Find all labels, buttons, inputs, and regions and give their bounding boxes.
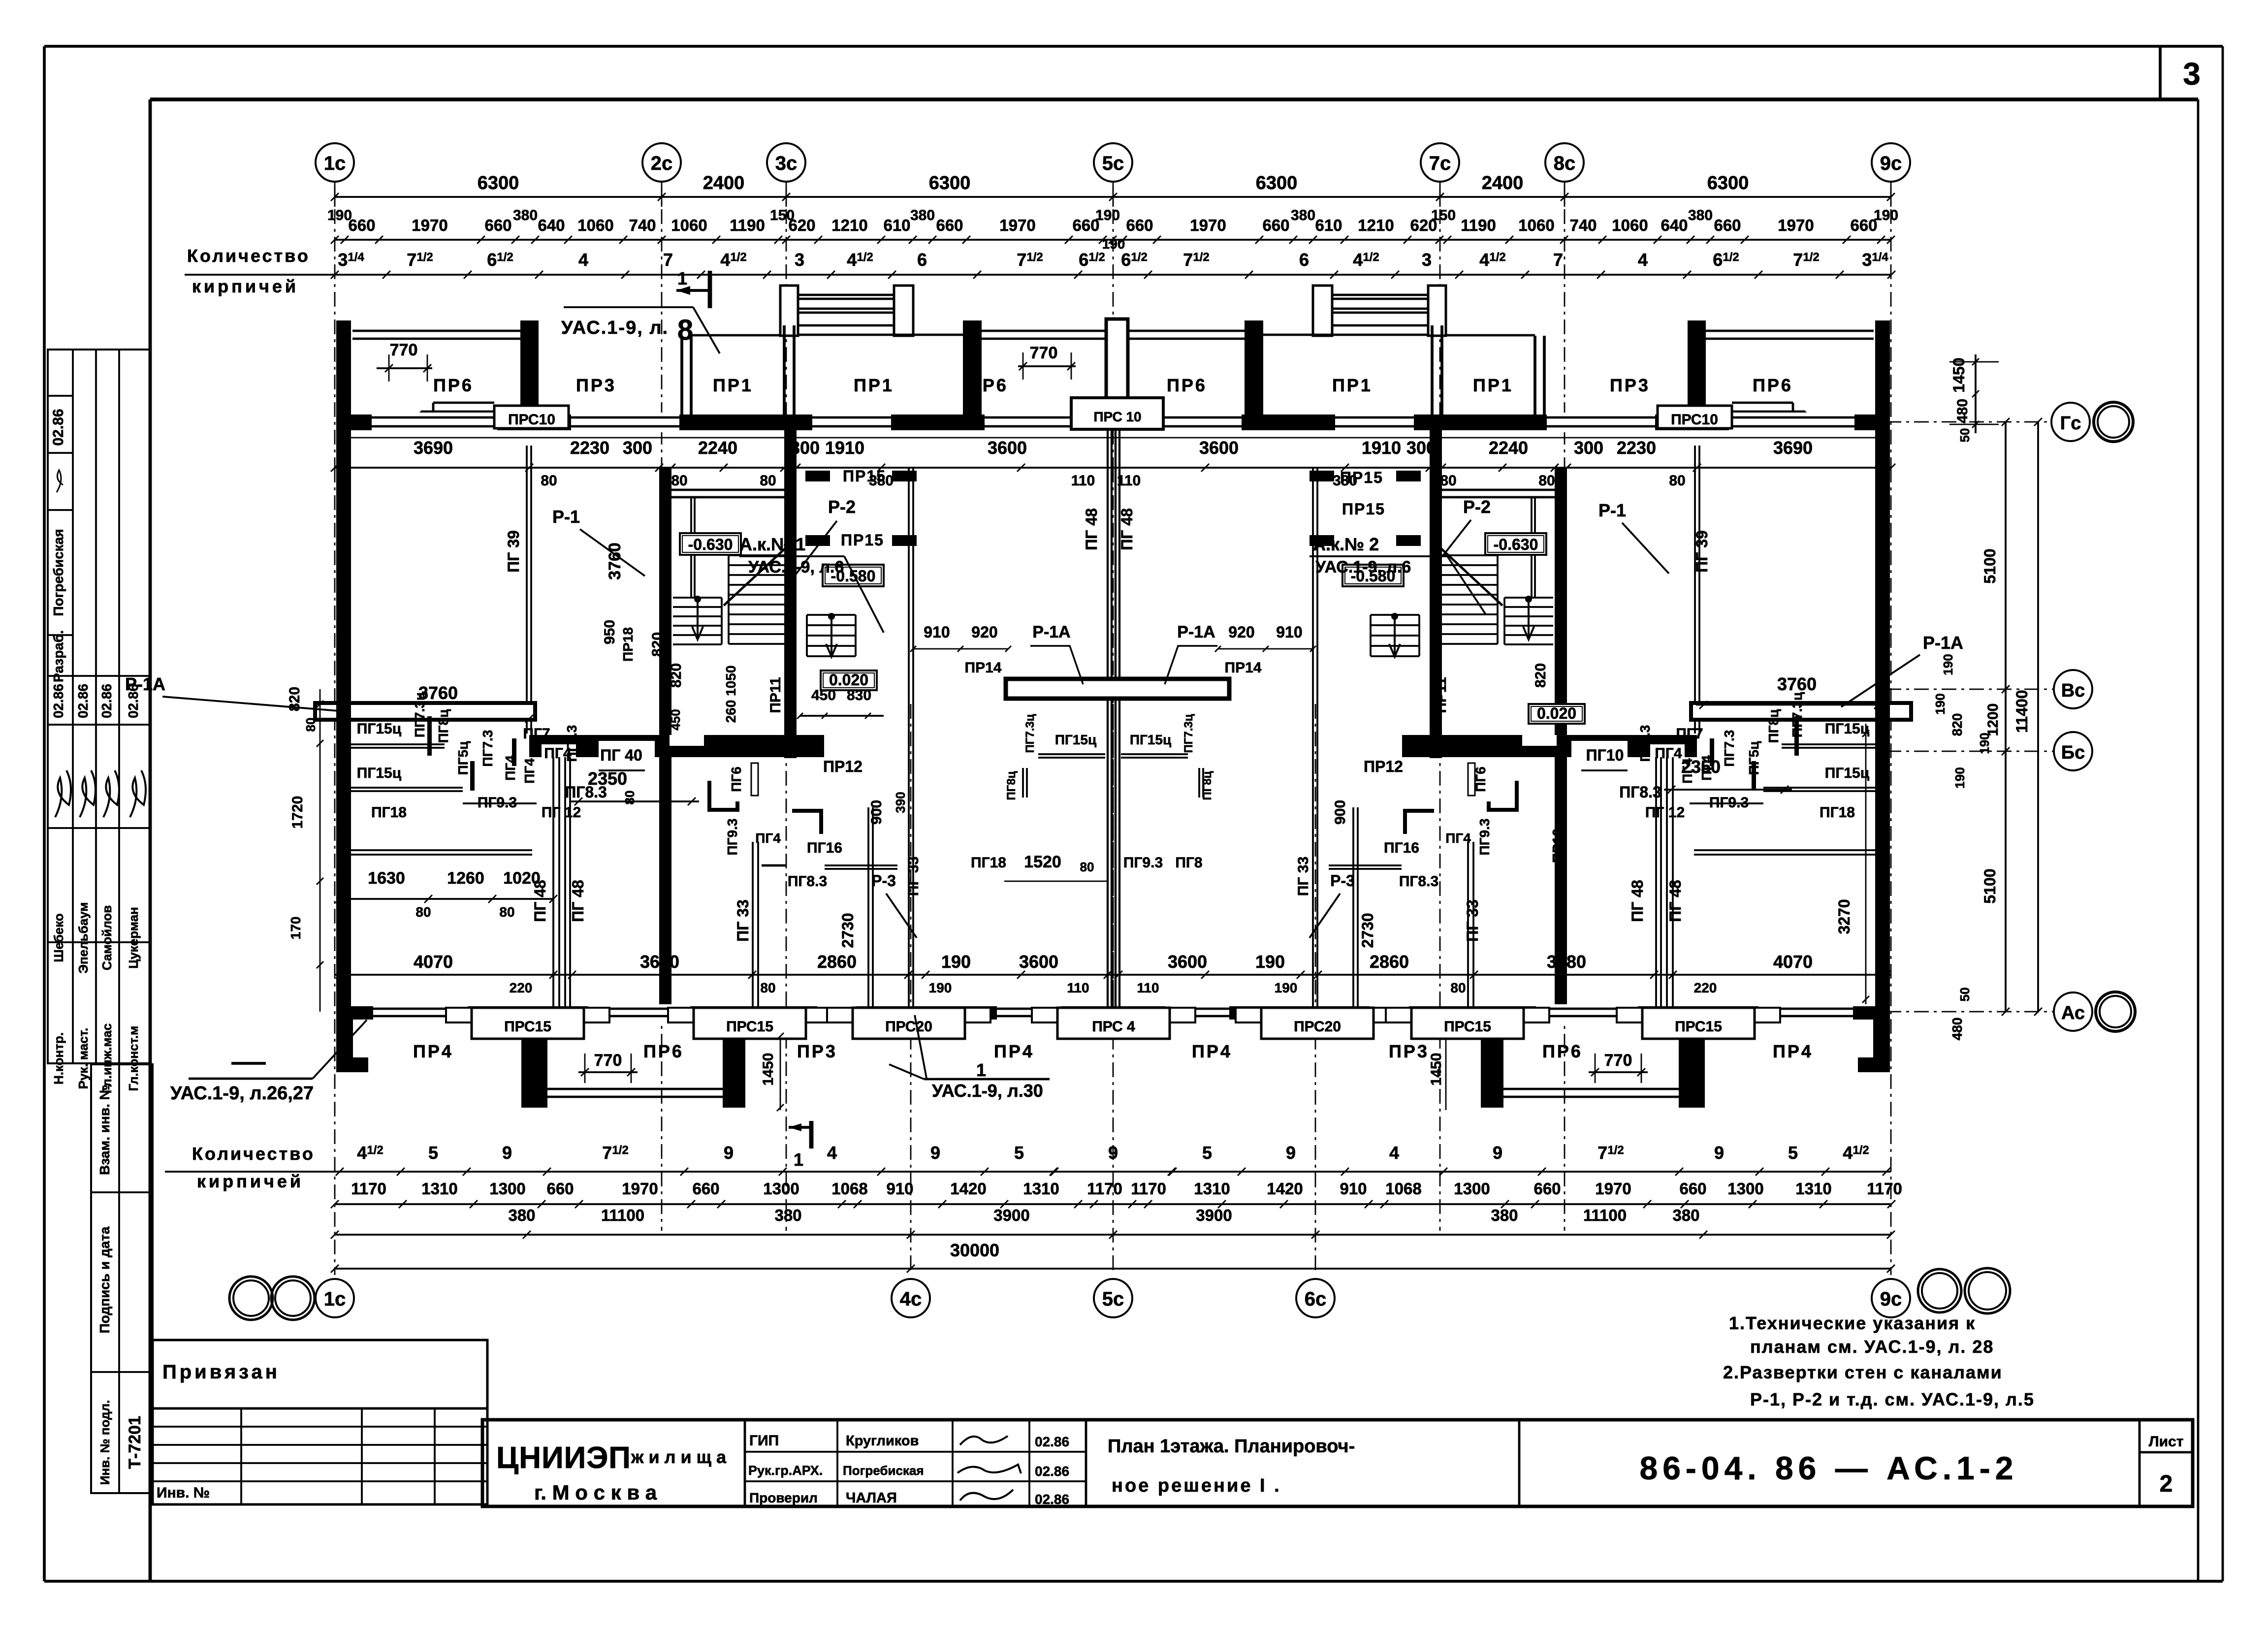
svg-text:11100: 11100 [1583, 1206, 1627, 1224]
svg-text:1060: 1060 [1518, 216, 1554, 234]
svg-text:ПГ8ц: ПГ8ц [1201, 771, 1214, 800]
dim 770 top left [377, 341, 432, 382]
right vertical dimension 11400 [2013, 418, 2042, 1016]
svg-text:УАС.1-9, л.26,27: УАС.1-9, л.26,27 [170, 1083, 314, 1104]
svg-text:-0.630: -0.630 [688, 536, 733, 553]
loggia labels bottom [413, 1041, 1813, 1061]
svg-text:ж и л и щ а: ж и л и щ а [631, 1447, 727, 1467]
right end wall [1875, 320, 1890, 1019]
svg-text:ПГ 39: ПГ 39 [1693, 530, 1711, 573]
svg-text:80: 80 [499, 904, 514, 920]
svg-text:ПРС15: ПРС15 [1675, 1019, 1722, 1035]
svg-text:Р-3: Р-3 [871, 872, 896, 890]
svg-text:ПГ 48: ПГ 48 [1666, 880, 1684, 922]
svg-text:1420: 1420 [950, 1180, 986, 1198]
stair flight arrows right [1389, 596, 1534, 657]
apartment entry labels right [1310, 534, 1486, 614]
wall labels left module [505, 530, 884, 804]
svg-text:Инв. № подл.: Инв. № подл. [97, 1400, 112, 1485]
svg-text:660: 660 [484, 216, 511, 234]
svg-text:190: 190 [1095, 207, 1120, 223]
svg-text:6300: 6300 [929, 173, 971, 193]
svg-text:Привязан: Привязан [162, 1361, 280, 1383]
svg-text:Ас: Ас [2061, 1003, 2085, 1023]
lintel labels PR15 left bay [841, 467, 886, 549]
svg-text:1300: 1300 [489, 1180, 525, 1198]
bottom brick count row [165, 1143, 1891, 1176]
svg-text:3680: 3680 [1547, 952, 1586, 972]
svg-text:Рук. маст.: Рук. маст. [76, 1028, 91, 1089]
dim 770 bottom right porch [1428, 1051, 1648, 1085]
svg-text:1190: 1190 [1461, 216, 1496, 234]
svg-text:3: 3 [2183, 56, 2201, 92]
lintel box ПРС15 bottom [1386, 1008, 1549, 1039]
svg-text:1970: 1970 [1190, 216, 1226, 234]
svg-text:ПР6: ПР6 [1167, 375, 1207, 395]
svg-text:ПГ6: ПГ6 [729, 766, 744, 792]
svg-text:190: 190 [1941, 654, 1955, 675]
svg-text:830: 830 [847, 687, 871, 703]
svg-text:ПГ 12: ПГ 12 [1645, 804, 1685, 821]
svg-text:110: 110 [1067, 980, 1089, 995]
svg-text:5: 5 [1202, 1143, 1212, 1163]
svg-text:770: 770 [390, 341, 418, 359]
svg-text:4: 4 [827, 1143, 837, 1163]
svg-text:Н.контр.: Н.контр. [51, 1032, 66, 1085]
svg-text:ПГ18: ПГ18 [971, 855, 1006, 871]
svg-text:300: 300 [623, 438, 652, 458]
svg-text:Количество: Количество [192, 1144, 315, 1164]
svg-text:190: 190 [929, 980, 952, 995]
central wall 5c [1006, 335, 1229, 1006]
partition tags near 5c wall [1005, 714, 1214, 800]
axis circle 5c top [1094, 143, 1132, 182]
svg-text:ПР3: ПР3 [1389, 1041, 1429, 1061]
svg-text:ПГ4: ПГ4 [755, 830, 781, 846]
svg-text:30000: 30000 [950, 1240, 999, 1260]
svg-text:1с: 1с [324, 1288, 346, 1310]
svg-text:1300: 1300 [1727, 1180, 1763, 1198]
svg-text:5100: 5100 [1981, 868, 1999, 903]
svg-text:ПР10: ПР10 [1550, 829, 1565, 863]
svg-text:1068: 1068 [1385, 1180, 1421, 1198]
svg-text:3: 3 [1422, 250, 1432, 270]
svg-text:Эпельбаум: Эпельбаум [76, 902, 91, 973]
svg-text:Рук.гр.АРХ.: Рук.гр.АРХ. [748, 1463, 823, 1478]
svg-text:220: 220 [1694, 980, 1717, 995]
svg-text:1450: 1450 [760, 1053, 776, 1086]
central wall labels PG48 [531, 508, 1684, 942]
svg-text:190: 190 [1933, 693, 1948, 714]
svg-text:ПР15: ПР15 [841, 531, 884, 549]
svg-text:900: 900 [868, 800, 885, 825]
section reference UAS.1-9 l.8 [561, 307, 720, 353]
svg-text:Кругликов: Кругликов [846, 1433, 919, 1449]
svg-text:1170: 1170 [1867, 1180, 1902, 1198]
svg-text:1450: 1450 [1950, 357, 1968, 392]
svg-text:1970: 1970 [1778, 216, 1814, 234]
axis circle 4c bottom [892, 1279, 930, 1317]
svg-text:ПГ4: ПГ4 [1655, 745, 1682, 762]
svg-text:ПР14: ПР14 [1225, 660, 1262, 676]
svg-text:ПГ15ц: ПГ15ц [1825, 721, 1870, 737]
svg-text:5: 5 [428, 1143, 438, 1163]
svg-text:ЧАЛАЯ: ЧАЛАЯ [846, 1490, 897, 1506]
svg-text:1060: 1060 [1612, 216, 1648, 234]
mid apartment labels Р-1А [125, 623, 1963, 711]
svg-text:-0.630: -0.630 [1494, 536, 1538, 553]
svg-text:640: 640 [1661, 216, 1688, 234]
stair axis labels right module [1442, 497, 1669, 574]
svg-text:02.86: 02.86 [1035, 1464, 1069, 1479]
svg-text:900: 900 [1332, 800, 1348, 825]
svg-text:02.86: 02.86 [50, 409, 66, 446]
svg-text:ПГ 48: ПГ 48 [1629, 880, 1646, 922]
svg-text:3760: 3760 [606, 543, 624, 580]
svg-text:ПР1: ПР1 [713, 375, 753, 395]
room dim 2350 left [571, 768, 699, 805]
svg-text:820: 820 [1533, 663, 1549, 688]
svg-text:6300: 6300 [478, 173, 519, 193]
svg-text:1: 1 [976, 1060, 986, 1080]
svg-text:80: 80 [1440, 473, 1456, 489]
svg-text:ПР11: ПР11 [1433, 677, 1449, 713]
lintel box PRS10 center with stem [1071, 319, 1163, 429]
svg-text:2730: 2730 [1359, 913, 1376, 948]
svg-text:ПГ18: ПГ18 [1820, 804, 1855, 821]
svg-text:ПГ4: ПГ4 [1680, 758, 1695, 784]
svg-text:ПГ7.3ц: ПГ7.3ц [412, 692, 427, 737]
svg-text:ПГ6: ПГ6 [1473, 766, 1488, 792]
svg-text:Гл.конст.м: Гл.конст.м [126, 1026, 141, 1091]
svg-text:УАС.1-9, л.6: УАС.1-9, л.6 [1315, 558, 1411, 576]
apartment entry labels left [739, 534, 884, 633]
svg-text:1020: 1020 [503, 869, 541, 888]
svg-text:220: 220 [510, 980, 533, 995]
svg-text:02.86: 02.86 [51, 684, 66, 718]
top dimension row spans 6300-2400-6300 [331, 173, 1895, 207]
svg-text:ПРС20: ПРС20 [1294, 1019, 1341, 1035]
dim 1520 right of center [971, 853, 1203, 881]
stair axis labels left module [552, 497, 856, 578]
section cut flag 1 bottom [789, 1121, 811, 1170]
svg-text:ПРС 10: ПРС 10 [1093, 409, 1141, 424]
svg-text:300: 300 [790, 438, 820, 458]
svg-text:4: 4 [1389, 1143, 1399, 1163]
svg-text:80: 80 [1669, 473, 1685, 489]
dims near stair bottom left [910, 623, 1316, 676]
svg-text:Подпись и дата: Подпись и дата [97, 1226, 112, 1333]
partition labels lower right cluster [1645, 692, 1876, 821]
svg-text:7: 7 [663, 250, 673, 270]
svg-text:ПГ7.3ц: ПГ7.3ц [1023, 714, 1037, 753]
svg-text:Инв. №: Инв. № [157, 1485, 210, 1501]
svg-text:80: 80 [415, 904, 431, 920]
svg-text:9с: 9с [1880, 1288, 1902, 1310]
svg-text:9: 9 [1714, 1143, 1724, 1163]
axis circle Vc right [1886, 670, 2092, 708]
svg-text:ПГ 33: ПГ 33 [905, 857, 922, 896]
lintel box PRS10 right [1658, 406, 1732, 428]
left margin room dims [287, 687, 323, 1012]
bottom left table [153, 1408, 487, 1504]
svg-text:ПР4: ПР4 [994, 1041, 1034, 1061]
svg-text:ПГ8ц: ПГ8ц [436, 709, 451, 743]
svg-text:ПРС15: ПРС15 [726, 1019, 773, 1035]
svg-text:380: 380 [1688, 207, 1713, 223]
revision double circles bottom left [229, 1277, 315, 1320]
svg-text:ПРС15: ПРС15 [504, 1019, 551, 1035]
svg-text:Т-7201: Т-7201 [126, 1416, 144, 1469]
svg-text:ПР4: ПР4 [1192, 1041, 1232, 1061]
svg-text:6300: 6300 [1707, 173, 1749, 193]
svg-text:ПР1: ПР1 [1473, 375, 1513, 395]
svg-text:80: 80 [622, 791, 637, 805]
svg-text:0.020: 0.020 [1537, 704, 1576, 722]
svg-text:3: 3 [795, 250, 804, 270]
svg-text:Самойлов: Самойлов [99, 905, 114, 970]
left margin signature table [48, 350, 150, 1093]
lintel box ПРС20 bottom [827, 1008, 990, 1039]
svg-text:ПР6: ПР6 [433, 375, 474, 395]
svg-text:1с: 1с [324, 153, 346, 174]
svg-text:Р-2: Р-2 [828, 497, 856, 517]
svg-text:9: 9 [930, 1143, 940, 1163]
axis circle Ac right [1886, 992, 2135, 1031]
svg-text:Погребиская: Погребиская [51, 529, 66, 616]
svg-text:ПР11: ПР11 [767, 677, 784, 713]
bottom dimension row 30000 [331, 1240, 1895, 1273]
svg-text:640: 640 [538, 216, 565, 234]
svg-text:Вс: Вс [2061, 680, 2085, 701]
svg-text:260 1050: 260 1050 [723, 666, 738, 723]
svg-text:920: 920 [1228, 623, 1254, 641]
svg-text:ПГ 39: ПГ 39 [505, 530, 522, 573]
svg-text:910: 910 [924, 623, 950, 641]
svg-text:Проверил: Проверил [749, 1490, 818, 1505]
svg-text:ПР3: ПР3 [1610, 375, 1650, 395]
svg-text:2730: 2730 [839, 913, 857, 948]
svg-text:ПГ9.3: ПГ9.3 [1123, 855, 1163, 871]
svg-text:3690: 3690 [414, 438, 453, 458]
svg-text:660: 660 [1126, 216, 1153, 234]
axis circle 1c top [316, 143, 354, 182]
lintel box ПРС15 bottom [1617, 1008, 1780, 1039]
svg-text:ЦНИИЭП: ЦНИИЭП [496, 1441, 631, 1475]
svg-text:ПГ 33: ПГ 33 [1464, 899, 1481, 942]
svg-text:А.к.№ 2: А.к.№ 2 [1313, 534, 1379, 554]
room dim 3270 right [1835, 724, 1869, 1004]
svg-text:ПГ16: ПГ16 [1384, 840, 1419, 856]
svg-text:ПГ7: ПГ7 [523, 726, 550, 742]
svg-text:9: 9 [1493, 1143, 1502, 1163]
svg-text:2860: 2860 [1370, 952, 1409, 972]
svg-text:ПР1: ПР1 [1332, 375, 1373, 395]
axis circle 9c top [1872, 143, 1910, 182]
svg-text:450: 450 [811, 687, 836, 703]
svg-text:1630: 1630 [368, 869, 405, 888]
svg-text:1200: 1200 [1985, 703, 2001, 736]
svg-text:ПГ 33: ПГ 33 [734, 899, 752, 942]
svg-text:9: 9 [724, 1143, 734, 1163]
svg-text:ПГ8ц: ПГ8ц [1005, 771, 1018, 800]
right vertical dimension 1450 480 50 [1949, 354, 1999, 442]
svg-text:6: 6 [1299, 250, 1309, 270]
svg-text:Гл.инж.мас: Гл.инж.мас [99, 1023, 114, 1093]
svg-text:80: 80 [1080, 860, 1094, 874]
svg-text:ПР12: ПР12 [823, 758, 862, 775]
svg-text:660: 660 [1533, 1180, 1561, 1198]
stair flight arrows left [692, 596, 837, 657]
svg-text:ПГ7.3: ПГ7.3 [1722, 730, 1737, 767]
revision double circles bottom right [1918, 1268, 2010, 1313]
svg-text:190: 190 [1874, 207, 1898, 223]
svg-text:80: 80 [1538, 473, 1555, 489]
svg-text:6с: 6с [1305, 1288, 1327, 1310]
svg-text:3760: 3760 [1777, 674, 1817, 694]
svg-text:770: 770 [1604, 1051, 1632, 1070]
svg-text:4с: 4с [900, 1288, 922, 1310]
svg-text:740: 740 [1569, 216, 1597, 234]
svg-text:0.020: 0.020 [829, 671, 868, 689]
bottom dimension row small segments [331, 1180, 1902, 1208]
svg-text:610: 610 [1315, 216, 1342, 234]
svg-text:ПГ 33: ПГ 33 [1295, 857, 1311, 896]
svg-text:ПР4: ПР4 [413, 1041, 453, 1061]
svg-text:150: 150 [1431, 207, 1456, 223]
svg-text:ПГ 48: ПГ 48 [1083, 508, 1100, 550]
svg-text:Р-2: Р-2 [1463, 497, 1491, 517]
svg-text:2240: 2240 [698, 438, 737, 458]
svg-text:950: 950 [602, 620, 618, 644]
axis circle 8c top [1545, 143, 1584, 182]
svg-text:5100: 5100 [1981, 548, 1999, 583]
svg-text:ПГ10: ПГ10 [1586, 746, 1624, 764]
svg-text:9: 9 [502, 1143, 512, 1163]
svg-text:ПР6: ПР6 [968, 375, 1008, 395]
svg-text:ПР15: ПР15 [843, 467, 886, 485]
svg-text:660: 660 [546, 1180, 574, 1198]
svg-text:3600: 3600 [1199, 438, 1239, 458]
svg-text:2: 2 [2160, 1471, 2173, 1497]
svg-text:920: 920 [971, 623, 997, 641]
svg-text:660: 660 [1679, 1180, 1706, 1198]
bottom main wall Ac [336, 1004, 1886, 1021]
svg-text:4070: 4070 [1773, 952, 1813, 972]
partition labels lower left cluster [351, 692, 581, 821]
svg-text:ПРС15: ПРС15 [1444, 1019, 1491, 1035]
svg-text:300: 300 [1574, 438, 1603, 458]
svg-text:11400: 11400 [2013, 690, 2031, 733]
svg-text:Взам. инв. №: Взам. инв. № [97, 1085, 112, 1175]
svg-text:1170: 1170 [1087, 1180, 1122, 1198]
svg-text:1190: 1190 [730, 216, 765, 234]
svg-text:740: 740 [629, 216, 656, 234]
Privyazan box [153, 1340, 487, 1408]
svg-text:110: 110 [1071, 473, 1095, 489]
svg-text:86-04. 86 — АС.1-2: 86-04. 86 — АС.1-2 [1640, 1450, 2018, 1486]
svg-text:1068: 1068 [831, 1180, 867, 1198]
svg-text:ПГ 40: ПГ 40 [600, 746, 642, 764]
svg-text:Р-1: Р-1 [1598, 500, 1626, 520]
left margin inventory table [91, 1064, 153, 1493]
svg-text:7: 7 [1553, 250, 1563, 270]
svg-text:820: 820 [649, 632, 666, 657]
svg-text:660: 660 [692, 1180, 719, 1198]
svg-text:ПРС10: ПРС10 [1671, 412, 1718, 428]
svg-text:6: 6 [917, 250, 927, 270]
main title stamp [482, 1420, 2193, 1507]
svg-text:1300: 1300 [1454, 1180, 1490, 1198]
right small dims 190 820 190 [1933, 654, 1992, 1040]
svg-text:80: 80 [1450, 980, 1466, 995]
axis circle Bc right [1886, 732, 2092, 770]
svg-text:ПР6: ПР6 [1753, 375, 1793, 395]
axis circle 7c top [1421, 143, 1459, 182]
top brick count row [185, 236, 1895, 279]
svg-text:910: 910 [1276, 623, 1302, 641]
svg-text:80: 80 [760, 473, 776, 489]
svg-text:190: 190 [1952, 767, 1967, 788]
svg-text:5: 5 [1788, 1143, 1798, 1163]
svg-text:ПГ9.3: ПГ9.3 [1477, 819, 1492, 856]
label quantity of bricks bottom [192, 1144, 315, 1191]
svg-text:Шебеко: Шебеко [51, 913, 66, 962]
svg-text:380: 380 [774, 1206, 801, 1224]
svg-text:А.к.№ 1: А.к.№ 1 [739, 534, 805, 554]
svg-text:620: 620 [788, 216, 815, 234]
svg-text:1970: 1970 [412, 216, 447, 234]
svg-text:УАС.1-9, л.: УАС.1-9, л. [561, 318, 669, 338]
label quantity of bricks top [187, 246, 310, 296]
svg-text:910: 910 [886, 1180, 913, 1198]
svg-text:ПГ15ц: ПГ15ц [1825, 765, 1870, 781]
svg-text:Р-1А: Р-1А [125, 674, 165, 694]
svg-text:380: 380 [1491, 1206, 1518, 1224]
svg-text:ПРС20: ПРС20 [885, 1019, 932, 1035]
top dimension row small segments [327, 207, 1898, 244]
svg-text:ПР14: ПР14 [965, 660, 1002, 676]
svg-text:2240: 2240 [1489, 438, 1528, 458]
svg-text:1970: 1970 [1595, 1180, 1631, 1198]
interior dimension line below top wall [331, 438, 1895, 489]
svg-text:480: 480 [1954, 399, 1971, 423]
svg-text:4070: 4070 [414, 952, 453, 972]
sheet number box 3 top right [2160, 46, 2201, 99]
svg-text:Бс: Бс [2061, 742, 2085, 763]
level box -0.630 left [680, 533, 741, 555]
svg-text:планам см. УАС.1-9, л. 28: планам см. УАС.1-9, л. 28 [1750, 1337, 1994, 1357]
svg-text:План 1этажа. Планировоч-: План 1этажа. Планировоч- [1108, 1436, 1355, 1457]
svg-text:8: 8 [677, 314, 693, 346]
svg-text:380: 380 [910, 207, 935, 223]
svg-text:ПР4: ПР4 [1773, 1041, 1813, 1061]
svg-text:ПГ8: ПГ8 [1175, 855, 1202, 871]
svg-text:Р-1, Р-2 и т.д. см. УАС.1-9,: Р-1, Р-2 и т.д. см. УАС.1-9, л.5 [1750, 1389, 2035, 1409]
svg-text:3с: 3с [775, 153, 798, 174]
lintel box ПРС15 bottom [668, 1008, 831, 1039]
svg-text:2230: 2230 [1617, 438, 1656, 458]
svg-text:660: 660 [348, 216, 375, 234]
svg-text:1210: 1210 [1358, 216, 1394, 234]
svg-text:660: 660 [936, 216, 963, 234]
svg-text:ПГ 48: ПГ 48 [569, 880, 587, 922]
svg-text:380: 380 [508, 1206, 535, 1224]
svg-text:ПР15: ПР15 [1342, 500, 1385, 518]
svg-text:кирпичей: кирпичей [197, 1171, 304, 1191]
svg-text:ПР15: ПР15 [1340, 469, 1383, 486]
svg-text:ПГ7.3ц: ПГ7.3ц [1182, 714, 1195, 753]
